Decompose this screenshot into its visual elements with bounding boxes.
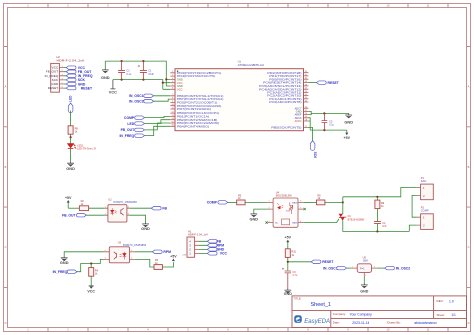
wire [68,207,79,209]
svg-text:4.7u: 4.7u [292,274,297,277]
wire collector to gnd [64,252,104,256]
wire [70,111,72,126]
svg-text:VCC: VCC [109,89,117,94]
svg-text:1: 1 [269,201,270,203]
wire [308,82,316,84]
power +5V [65,196,72,208]
wire [70,149,72,162]
power VCC [109,80,117,95]
svg-text:PC0(ADC0/PCINT8): PC0(ADC0/PCINT8) [269,100,301,104]
svg-text:1: 1 [131,250,132,252]
svg-text:25: 25 [305,94,307,96]
svg-text:PC817C_C5451863: PC817C_C5451863 [114,200,138,204]
svg-text:NC: NC [275,223,279,225]
svg-text:10: 10 [172,104,174,106]
svg-text:GND: GND [284,292,292,296]
svg-text:RESET: RESET [48,86,58,90]
junction [376,230,378,232]
wire [154,99,171,101]
svg-text:2: 2 [67,328,69,332]
zero-cross box [282,219,290,225]
internal triac [290,202,293,214]
svg-text:22: 22 [305,107,307,109]
svg-text:3: 3 [107,4,109,8]
wire [376,209,378,222]
svg-text:A: A [5,85,7,89]
svg-text:3: 3 [105,258,106,260]
svg-text:IN_FREQ: IN_FREQ [53,270,68,274]
svg-text:10: 10 [387,328,390,332]
net flag FB_OUT [62,214,86,218]
net flag IN_FREQ [53,270,77,274]
wire pin6 to R6 [303,201,316,203]
wire PB5 to SCK flag [308,128,312,141]
wire [154,95,171,97]
svg-text:LED-TH-5mm_R: LED-TH-5mm_R [77,148,96,151]
svg-text:27: 27 [305,88,307,90]
junction [90,262,92,264]
wire P1 pin2 to P2 pin1 [412,195,417,217]
svg-text:U3: U3 [118,240,122,244]
internal LED (on right) [123,252,127,260]
ground [344,113,353,124]
net flag COMP [124,116,144,120]
svg-text:24: 24 [305,97,307,99]
svg-text:6: 6 [227,328,229,332]
ground [141,222,150,231]
svg-text:COMP: COMP [124,116,135,120]
svg-text:7: 7 [267,328,269,332]
wire [377,267,385,269]
power +5V [170,254,177,261]
svg-text:47uF: 47uF [148,73,154,76]
svg-text:VCC: VCC [220,252,228,256]
net flag LED [127,122,144,126]
wire [70,134,72,143]
svg-text:Your Company: Your Company [350,312,373,316]
net flag FB [151,207,167,211]
svg-text:4: 4 [172,81,173,83]
net flag IN_OSC2 [129,100,154,104]
svg-text:5: 5 [187,4,189,8]
connector P1 220v [417,176,433,200]
resistor R8 [68,126,78,134]
svg-text:PB4(PCINT4/MISO): PB4(PCINT4/MISO) [177,124,209,128]
svg-text:4: 4 [300,221,301,223]
resistor R3 [154,259,162,269]
svg-text:16: 16 [172,125,174,127]
svg-text:U1: U1 [238,59,242,63]
svg-text:B: B [468,165,470,169]
LED LED1 LED-TH-5mm_R [67,144,96,151]
svg-text:AVCC: AVCC [294,119,301,123]
svg-text:1: 1 [62,66,63,68]
wire [145,126,171,135]
svg-text:C: C [468,245,470,249]
wire GND rail [105,61,170,86]
svg-text:3: 3 [374,266,375,268]
svg-text:+5V: +5V [182,254,186,256]
svg-text:3: 3 [107,328,109,332]
capacitor C4 1nF (snubber) [374,222,387,232]
svg-text:Sheet:: Sheet: [437,313,446,317]
svg-text:4: 4 [147,4,149,8]
wire [89,207,105,209]
svg-text:REV:: REV: [437,299,444,303]
wire emitter / R4 / IN_FREQ [77,259,104,271]
svg-text:4: 4 [128,206,129,208]
svg-text:ZCD: ZCD [286,211,291,213]
junction [323,129,325,131]
svg-text:30: 30 [305,78,307,80]
svg-text:15: 15 [172,121,174,123]
svg-text:Sheet_1: Sheet_1 [311,302,332,308]
svg-text:LED: LED [69,95,73,102]
net flag RESET [316,81,339,85]
wire P2 pin2 to bottom rail [409,225,417,231]
svg-text:2023-11-14: 2023-11-14 [352,321,369,325]
svg-text:1/1: 1/1 [451,313,456,317]
optocoupler U2 PC817C [105,197,137,222]
svg-text:8: 8 [172,98,173,100]
svg-text:9: 9 [172,101,173,103]
svg-text:FB: FB [162,207,167,211]
svg-text:9: 9 [347,4,349,8]
svg-text:31: 31 [305,74,307,76]
wire [90,276,92,286]
junction [287,261,289,263]
svg-text:28: 28 [305,84,307,86]
wire VCC rail [113,80,170,90]
net flag GND [207,248,224,252]
svg-text:EasyEDA: EasyEDA [304,319,330,325]
svg-text:3: 3 [172,78,173,80]
connector P2 COMP [417,206,433,230]
connector H1 HDR-F-2.54_1x4 [182,229,208,257]
capacitor C1 47uF (polarized) [138,61,155,80]
power VCC [87,286,95,293]
svg-text:21: 21 [305,110,307,112]
svg-text:12: 12 [172,112,174,114]
svg-text:+5V: +5V [285,236,292,240]
ground [249,212,258,221]
no-connect pin5 [303,208,305,210]
svg-text:13: 13 [172,115,174,117]
wire [363,276,365,283]
wire ADC6/AVCC to +5V [308,118,346,130]
net flag SCK (vertical) [310,141,317,159]
internal phototransistor (on left) [114,252,117,260]
optotriac U4 MOC3061SM [268,190,304,227]
wire [145,123,171,130]
svg-text:D: D [5,321,7,325]
wire [245,201,268,203]
EasyEDA logo [294,315,330,325]
svg-text:GND: GND [360,289,368,293]
ground [60,256,69,265]
svg-text:FB_OUT: FB_OUT [62,214,76,218]
ground [101,61,110,80]
net flag VCC [207,252,227,256]
wire triac vertical + top rail to P1 [343,188,417,215]
svg-text:Drawn By:: Drawn By: [387,321,401,325]
ground [284,289,292,296]
svg-text:6: 6 [227,4,229,8]
wire [86,214,105,216]
capacitor C2 0.1u [118,61,132,80]
svg-text:1: 1 [105,206,106,208]
svg-text:1.0: 1.0 [449,299,454,303]
svg-text:4: 4 [62,78,63,80]
net flag IN_FREQ [119,134,144,138]
svg-text:29: 29 [305,81,307,83]
svg-text:14: 14 [172,118,174,120]
internal LED [277,203,281,209]
svg-text:C: C [5,245,7,249]
svg-text:4: 4 [105,250,106,252]
junction [142,79,144,81]
svg-text:+5V: +5V [170,254,177,258]
junction [165,78,167,80]
svg-text:SCK: SCK [313,152,317,159]
resistor R5 [237,194,245,205]
svg-text:GND: GND [101,75,110,80]
junction [142,60,144,62]
left pin numbers [172,71,174,127]
resistor R4 [89,264,99,277]
svg-text:8: 8 [307,4,309,8]
svg-text:FB_OUT: FB_OUT [121,128,135,132]
resistor R6 [317,194,325,205]
wire [162,262,173,267]
svg-text:HDR-F-2.54_1x6: HDR-F-2.54_1x6 [57,58,85,62]
svg-text:RESET: RESET [81,86,93,90]
net flag IN_OSC1 [129,94,154,98]
svg-text:0.1u: 0.1u [329,124,334,127]
svg-text:F=1: F=1 [360,266,365,270]
svg-text:11: 11 [172,107,174,109]
svg-text:9: 9 [347,328,349,332]
resistor R9 (snubber) [375,197,385,209]
optocoupler U3 PC817C (mirrored) [104,240,147,262]
ground [66,162,75,171]
svg-text:19: 19 [305,116,307,118]
svg-text:IN_OSC1: IN_OSC1 [129,94,144,98]
net flag IN_FREQ [66,74,93,78]
svg-text:20: 20 [305,113,307,115]
svg-text:TITLE:: TITLE: [294,296,302,300]
svg-text:32: 32 [305,71,307,73]
net flag GND [66,82,86,86]
svg-text:17: 17 [305,126,307,128]
svg-text:7: 7 [267,4,269,8]
svg-text:abdurahmanov: abdurahmanov [414,321,437,325]
junction [323,112,325,114]
svg-text:26: 26 [305,91,307,93]
svg-text:6: 6 [300,201,301,203]
svg-text:2: 2 [105,213,106,215]
junction [121,60,123,62]
wire [288,257,311,270]
svg-text:+5V: +5V [344,136,351,140]
net flag RESET [311,260,334,264]
svg-text:RESET: RESET [328,81,340,85]
svg-text:1: 1 [352,266,353,268]
net flag SCK [66,78,85,82]
wire to RPM flag [135,251,152,253]
wire pin2 to gnd [254,209,268,212]
svg-text:11: 11 [427,4,430,8]
svg-text:3: 3 [128,213,129,215]
ground [360,283,368,293]
svg-text:3: 3 [269,221,270,223]
svg-text:1: 1 [27,4,29,8]
svg-text:+5V: +5V [65,196,72,200]
svg-text:IN_OSC2: IN_OSC2 [129,100,144,104]
svg-text:BTB16-600BW: BTB16-600BW [348,218,365,221]
net flag RESET [66,86,93,90]
connector H2 HDR-F-2.54_1x6 [45,55,85,92]
junction [70,136,72,138]
power +5V [285,236,292,249]
wire [228,201,237,203]
net flag IN_OSC2 [385,266,411,270]
svg-text:IN_OSC2: IN_OSC2 [396,266,411,270]
svg-text:MOC3061SM: MOC3061SM [276,193,292,197]
svg-text:8: 8 [307,328,309,332]
net flag FB_OUT [66,70,92,74]
svg-text:2: 2 [62,70,63,72]
svg-text:18: 18 [305,119,307,121]
svg-text:PD7(PCINT23/AIN1): PD7(PCINT23/AIN1) [177,107,211,111]
internal phototransistor [121,208,124,215]
svg-text:ATMEGA48PB-AU: ATMEGA48PB-AU [238,63,265,67]
capacitor C5 0.1u [322,113,335,130]
svg-text:6: 6 [172,88,173,90]
capacitor C6 4.7u (polarized) [282,268,298,289]
internal LED [111,208,114,215]
svg-text:4: 4 [147,328,149,332]
svg-text:5: 5 [172,84,173,86]
op-amp U1 ATMEGA48PB-AU microcontroller [170,59,308,130]
wire [347,267,352,269]
right pin numbers [305,71,307,128]
svg-text:LED: LED [127,122,134,126]
svg-text:VCC: VCC [87,289,95,293]
left pin names [177,71,224,128]
svg-text:PB5(SCK/PCINT5): PB5(SCK/PCINT5) [271,126,301,130]
wire AREF/GND to gnd [308,111,348,114]
svg-text:10: 10 [387,4,390,8]
svg-text:220v: 220v [421,179,427,183]
svg-text:PD0(RXD/PCINT16): PD0(RXD/PCINT16) [269,77,301,81]
svg-text:D: D [468,321,470,325]
svg-text:Date:: Date: [333,321,340,325]
svg-text:COMP: COMP [421,209,429,213]
svg-text:7: 7 [172,94,173,96]
wire [130,215,146,222]
svg-text:5: 5 [62,83,63,85]
resistor R10 [285,249,296,258]
svg-text:3: 3 [62,74,63,76]
svg-text:COMP: COMP [207,201,218,205]
wire triac bottom rail [343,221,410,232]
svg-text:MAIN: MAIN [292,222,298,225]
svg-text:1: 1 [172,71,173,73]
wire R6 to triac node [325,201,343,203]
svg-text:2: 2 [365,275,366,277]
resonator U5 [352,255,377,277]
svg-text:GND: GND [66,166,75,171]
wire gate from pin4 [303,219,339,223]
right pin names [259,71,302,130]
svg-text:1k: 1k [291,254,294,257]
svg-text:B: B [5,165,7,169]
svg-text:GND: GND [249,216,258,221]
net flag RPM [152,250,171,254]
svg-text:0.1u: 0.1u [126,73,131,76]
svg-text:1k: 1k [95,273,98,276]
wire [145,116,171,117]
svg-text:1k: 1k [75,131,78,134]
wire [130,207,151,209]
net flag RPM [207,244,224,248]
net flag FB [207,240,221,244]
svg-text:MAIN: MAIN [292,201,298,204]
svg-text:VCC: VCC [177,87,183,91]
triac D1 BTB16-600BW [339,214,365,222]
power +5V [344,130,351,140]
svg-text:6: 6 [62,87,63,89]
net flag FB_OUT [121,128,145,132]
svg-text:HDR-F-2.54_1x4: HDR-F-2.54_1x4 [188,233,208,237]
junction [162,82,164,84]
svg-text:GND: GND [344,119,353,124]
svg-text:1: 1 [27,328,29,332]
svg-text:5: 5 [300,207,301,209]
net flag LED (vertical) [68,95,73,113]
junction [121,79,123,81]
wire to R3 [135,259,154,267]
svg-text:5: 5 [187,328,189,332]
junction [342,201,344,203]
svg-text:2: 2 [172,75,173,77]
svg-text:16M: 16M [363,258,368,262]
wire H1 pins to flags [199,241,207,253]
net flag COMP [207,201,228,205]
net flag VCC [66,66,85,70]
svg-text:A: A [468,85,470,89]
resistor R2 [79,200,88,211]
svg-text:11: 11 [427,328,430,332]
svg-text:GND: GND [60,260,69,265]
svg-text:23: 23 [305,100,307,102]
svg-text:PD4(PCINT20/XCK/T0): PD4(PCINT20/XCK/T0) [177,74,215,78]
net flag IN_OSC1 [323,266,347,270]
no-connect pin3 [265,221,267,223]
svg-text:GND: GND [141,226,150,231]
svg-text:2: 2 [269,207,270,209]
svg-text:2: 2 [131,258,132,260]
wire [145,120,171,124]
svg-text:IN_FREQ: IN_FREQ [119,134,134,138]
svg-text:RESET: RESET [322,260,334,264]
svg-text:2: 2 [67,4,69,8]
svg-text:1k: 1k [381,205,384,208]
svg-text:Company:: Company: [333,312,346,316]
wire H2 pins to net flags [63,68,66,89]
svg-text:1nF: 1nF [382,225,387,228]
